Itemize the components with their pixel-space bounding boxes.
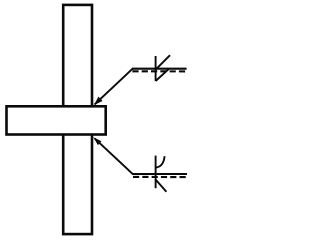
arrowhead (lower leader) (93, 137, 101, 145)
weld symbol lower: vertical stroke (155, 156, 157, 189)
weld symbol upper: fillet hypotenuse below reference line (156, 69, 169, 81)
weld symbol upper: bevel diagonal above reference line (156, 55, 170, 69)
identification line (upper, dashed) (132, 70, 187, 72)
reference line (lower, solid) (132, 173, 187, 175)
weld symbol upper: vertical stroke (155, 56, 157, 81)
reference line (upper, solid) (132, 68, 187, 70)
leader line (upper arrow line to top joint) (95, 69, 133, 105)
leader line (lower arrow line to bottom joint) (95, 139, 133, 174)
horizontal plate (cross member, drawn in front) (7, 106, 106, 134)
arrowhead (upper leader) (94, 97, 103, 106)
weld symbol lower: bevel diagonal below reference line (156, 180, 166, 192)
weld symbol lower: J-groove arc above reference line (156, 156, 164, 167)
vertical plate (upright member of cross joint) (63, 5, 92, 234)
identification line (lower, dashed) (133, 176, 188, 178)
